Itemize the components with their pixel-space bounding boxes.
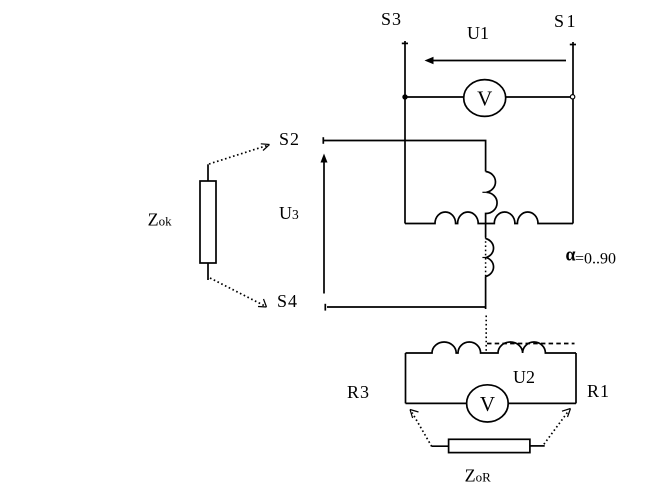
wire voltmeter U2 horizontal xyxy=(406,402,577,404)
svg-text:R1: R1 xyxy=(587,381,610,401)
arrow U1 (points left) xyxy=(425,57,567,65)
wire S4 horizontal xyxy=(327,306,486,308)
inductor stator horizontal winding xyxy=(405,212,573,224)
wire voltmeter U1 horizontal xyxy=(405,96,573,98)
voltmeter U1 xyxy=(464,80,506,117)
terminal tick S2 left xyxy=(322,137,324,144)
svg-text:=0..90: =0..90 xyxy=(575,251,616,268)
stator winding cusp tick xyxy=(482,191,486,193)
voltmeter U2 xyxy=(467,385,509,422)
svg-text:S3: S3 xyxy=(381,9,402,29)
dotted arrow Zok to S4 xyxy=(210,278,267,307)
svg-text:S2: S2 xyxy=(279,129,300,149)
svg-text:ZoR: ZoR xyxy=(465,466,492,486)
rotor winding arcs xyxy=(486,239,494,277)
svg-text:Zok: Zok xyxy=(148,210,173,230)
junction dot left xyxy=(402,94,407,99)
wire S2 horizontal with corner down xyxy=(324,141,486,172)
svg-text:R3: R3 xyxy=(347,382,370,402)
node circle right xyxy=(570,95,574,99)
rotor winding cusp tick xyxy=(482,257,486,259)
resistor ZoR box xyxy=(449,439,530,452)
rotor box left vertical xyxy=(405,353,407,403)
dashed rotor axis horizontal xyxy=(487,343,575,345)
inductor stator vertical winding xyxy=(486,172,497,238)
resistor Zok box xyxy=(200,181,216,263)
terminal tick S1 top xyxy=(570,44,576,46)
inductor rotor winding top xyxy=(406,342,577,353)
terminal tick S4 left xyxy=(324,304,326,311)
wire ZoR right stub xyxy=(530,445,545,447)
wire S3 vertical xyxy=(404,41,406,224)
wire ZoR left stub xyxy=(432,445,449,447)
svg-text:U1: U1 xyxy=(467,23,489,43)
svg-text:U3: U3 xyxy=(279,203,299,223)
rotor wire solid to S4 xyxy=(485,277,487,310)
rotor box right vertical xyxy=(575,353,577,403)
svg-text:V: V xyxy=(480,392,495,416)
wire Zok top stub xyxy=(207,164,209,181)
dotted arrow Zok to S2 xyxy=(209,144,270,164)
dotted shaft link xyxy=(485,316,487,352)
dotted arrow ZoR to R1 xyxy=(544,409,571,445)
wire Zok bottom stub xyxy=(207,263,209,280)
svg-text:S4: S4 xyxy=(277,291,298,311)
rotor winding dotted axis xyxy=(485,237,487,278)
terminal tick S3 top xyxy=(402,42,408,44)
arrow U3 (points up) xyxy=(321,154,328,294)
svg-text:S1: S1 xyxy=(554,11,578,31)
wire S1 vertical xyxy=(572,42,574,224)
svg-text:U2: U2 xyxy=(513,367,535,387)
svg-text:V: V xyxy=(477,87,492,111)
dotted arrow ZoR to R3 xyxy=(410,410,432,447)
